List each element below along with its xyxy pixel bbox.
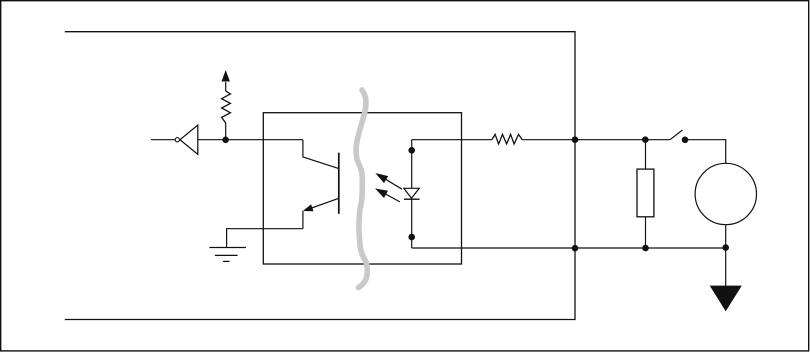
wire: emitter return to ground (227, 229, 303, 248)
node: boundary bottom junction (572, 245, 579, 252)
light emission arrows (375, 173, 402, 202)
resistor (load, box style) (637, 140, 654, 248)
node: lamp bottom junction (722, 244, 729, 251)
node: load resistor top junction (642, 136, 649, 143)
resistor (series, horizontal) (492, 134, 522, 144)
wire: bottom return bus (412, 247, 726, 249)
lamp/load circle (695, 163, 756, 224)
wire: switch to lamp (688, 140, 726, 164)
switch (670, 130, 688, 143)
ground (chassis, filled triangle) (710, 286, 742, 312)
LED (404, 140, 420, 248)
node: load resistor bottom junction (642, 245, 649, 252)
power supply arrow (222, 70, 230, 82)
wire: inverter output to optocoupler collector entry (198, 139, 303, 141)
ground (209, 248, 246, 262)
phototransistor (303, 140, 339, 229)
node: inverter output / pull-up junction (222, 137, 229, 144)
node: LED cathode pin dot (408, 234, 415, 241)
isolation barrier (gray squiggle) (356, 90, 367, 288)
node: boundary top junction (572, 136, 579, 143)
enclosure boundary (open-left bracket) (65, 32, 575, 320)
wire: LED anode to series resistor (412, 139, 492, 141)
wire: series resistor to switch junction (522, 139, 670, 141)
resistor (pull-up, vertical) (222, 82, 231, 140)
wire: lamp to chassis ground (725, 225, 727, 286)
inverter (bubble + triangle) (175, 125, 198, 154)
optocoupler body (263, 113, 461, 264)
wire: inverter input stub (151, 139, 175, 141)
node: LED anode pin dot (408, 147, 415, 154)
